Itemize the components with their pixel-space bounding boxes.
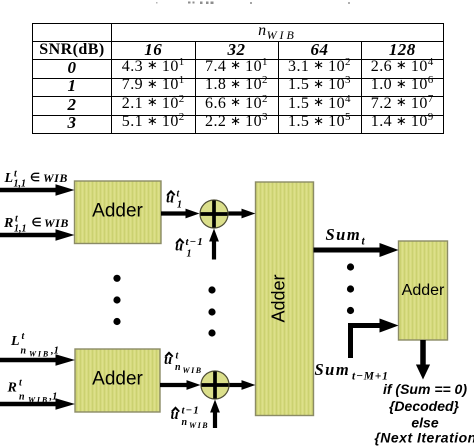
svg-text:1,1: 1,1 bbox=[14, 179, 27, 190]
svg-text:else: else bbox=[411, 415, 438, 431]
adder block A2 (bottom-left) bbox=[75, 349, 160, 412]
adder block A3 (tall center) bbox=[256, 182, 314, 416]
svg-text:,1: ,1 bbox=[49, 392, 58, 403]
decision text bbox=[374, 381, 474, 446]
svg-text:t−1: t−1 bbox=[186, 236, 204, 248]
label L(t,1,1) in WIB bbox=[4, 169, 68, 190]
svg-text:Adder: Adder bbox=[402, 282, 445, 299]
svg-text:WIB: WIB bbox=[43, 171, 68, 185]
svg-text:t: t bbox=[19, 378, 23, 389]
label u-hat(t-1,nWIB) bbox=[171, 405, 210, 431]
label R(t,1,1) in WIB bbox=[3, 214, 69, 235]
svg-text:t: t bbox=[362, 236, 366, 248]
label u-hat(t-1,1) bbox=[175, 236, 204, 260]
svg-text:∈: ∈ bbox=[32, 217, 42, 229]
svg-text:WIB: WIB bbox=[44, 216, 69, 230]
XOR node X1 bbox=[200, 200, 228, 228]
svg-text:n: n bbox=[19, 392, 25, 403]
wire: A2 output to X2 bbox=[160, 383, 187, 387]
node dots column 3 bbox=[347, 263, 354, 270]
svg-text:,1: ,1 bbox=[50, 346, 59, 357]
svg-text:WIB: WIB bbox=[28, 396, 49, 405]
node dots column 2 bbox=[208, 286, 215, 293]
label L(t,nWIB,1) bbox=[10, 331, 59, 359]
wire: X1 output to A3 bbox=[229, 211, 243, 215]
svg-text:1,1: 1,1 bbox=[14, 224, 27, 235]
label R(t,nWIB,1) bbox=[7, 378, 58, 405]
svg-text:Sum: Sum bbox=[315, 360, 351, 379]
adder block A4 (right) bbox=[399, 241, 448, 340]
svg-text:n: n bbox=[175, 362, 181, 373]
svg-text:t: t bbox=[22, 331, 26, 342]
svg-text:Adder: Adder bbox=[92, 201, 143, 222]
svg-text:t−1: t−1 bbox=[182, 405, 200, 417]
svg-text:∈: ∈ bbox=[30, 172, 40, 184]
wire: input L1 arrow bbox=[0, 188, 57, 192]
svg-text:t: t bbox=[176, 351, 180, 362]
svg-text:1: 1 bbox=[187, 249, 192, 260]
wire: feedback up into X2 bbox=[213, 411, 217, 428]
svg-text:{Decoded}: {Decoded} bbox=[389, 398, 460, 414]
svg-text:L: L bbox=[10, 334, 20, 349]
wire: input R2 arrow bbox=[0, 402, 57, 406]
wire: input L2 arrow bbox=[0, 358, 57, 362]
wire: A1 output to X1 bbox=[161, 211, 187, 215]
node dots column 1 bbox=[113, 275, 120, 282]
faint cut-off caption tips at very top bbox=[156, 2, 350, 5]
XOR node X2 bbox=[201, 371, 229, 399]
svg-text:Sum: Sum bbox=[326, 225, 362, 244]
wire: input R1 arrow bbox=[0, 233, 57, 237]
svg-text:Adder: Adder bbox=[269, 274, 289, 322]
wire: A4 output down arrow bbox=[420, 340, 426, 365]
results table bbox=[32, 23, 444, 134]
svg-text:if (Sum == 0): if (Sum == 0) bbox=[383, 381, 467, 397]
svg-text:n: n bbox=[182, 417, 188, 428]
adder block A1 (top-left) bbox=[75, 181, 162, 244]
label u-hat(t,nWIB) bbox=[164, 351, 203, 376]
svg-text:WIB: WIB bbox=[183, 366, 203, 375]
svg-text:n: n bbox=[21, 346, 27, 357]
svg-text:R: R bbox=[3, 216, 13, 231]
label Sum_t bbox=[326, 225, 366, 248]
svg-text:WIB: WIB bbox=[29, 350, 50, 359]
wire: X2 output to A3 bbox=[230, 383, 243, 387]
svg-text:Adder: Adder bbox=[92, 369, 143, 390]
wire: Sum_t arrow A3 to A4 bbox=[314, 248, 382, 253]
svg-text:L: L bbox=[4, 171, 14, 186]
svg-text:{Next Iteration}: {Next Iteration} bbox=[374, 430, 474, 446]
svg-text:R: R bbox=[7, 381, 17, 396]
wire: feedback up into X1 bbox=[212, 240, 216, 260]
svg-text:1: 1 bbox=[177, 200, 182, 211]
label u-hat(t,1) bbox=[166, 189, 182, 211]
wire: Sum_t-M+1 elbow arrow into A4 bbox=[351, 326, 382, 359]
svg-text:WIB: WIB bbox=[189, 421, 209, 430]
svg-text:t: t bbox=[177, 189, 181, 200]
label Sum_t-M+1 bbox=[315, 360, 389, 383]
